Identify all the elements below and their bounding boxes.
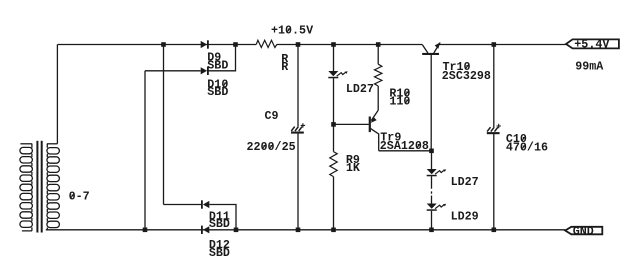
label D11 bbox=[209, 210, 230, 232]
node top rail x=493.8 (C10) bbox=[492, 42, 497, 47]
wire LD27/R9 branch upper bbox=[333, 45, 335, 72]
diode D10 SBD bbox=[201, 67, 209, 75]
wire D11 cathode horizontal bbox=[164, 204, 202, 206]
wire Tr9 base bbox=[334, 123, 369, 125]
svg-text:GND: GND bbox=[573, 224, 594, 238]
label 99mA bbox=[575, 59, 604, 73]
svg-text:+10.5V: +10.5V bbox=[271, 23, 313, 37]
LED LD27 (upper) bbox=[328, 71, 347, 78]
wire LD29 to GND rail bbox=[431, 211, 433, 230]
node top rail x=163.5 bbox=[161, 42, 166, 47]
resistor R9 bbox=[330, 152, 337, 177]
label R9 1K bbox=[346, 153, 361, 175]
node Tr10 base / Tr9 collector junction bbox=[429, 149, 434, 154]
wire D10 anode from bottom winding bbox=[145, 70, 201, 72]
resistor R bbox=[256, 40, 277, 47]
svg-text:1K: 1K bbox=[346, 161, 361, 175]
svg-text:SBD: SBD bbox=[207, 58, 228, 72]
label D12 bbox=[209, 238, 230, 260]
transformer T1 (secondary 0-7) bbox=[20, 141, 60, 233]
svg-text:LD29: LD29 bbox=[451, 210, 479, 224]
diode D12 SBD bbox=[201, 226, 209, 234]
wire Tr9 collector to Tr10 base bbox=[379, 150, 432, 152]
node GND rail x=145 bbox=[143, 228, 148, 233]
node base junction bbox=[331, 122, 336, 127]
capacitor C10 (electrolytic) bbox=[487, 124, 501, 134]
label Tr10 2SC3298 bbox=[442, 60, 491, 83]
svg-text:C9: C9 bbox=[265, 109, 279, 123]
label D10 bbox=[207, 77, 228, 99]
label LD27 (upper) bbox=[346, 82, 374, 96]
terminal flag GND bbox=[565, 224, 602, 238]
wire bottom rail (GND) bbox=[46, 229, 566, 231]
label C9 bbox=[265, 109, 279, 123]
resistor R10 bbox=[375, 64, 382, 86]
node top rail x=333.5 (LD27) bbox=[331, 42, 336, 47]
label D9 bbox=[207, 51, 228, 73]
transformer secondary label 0-7 bbox=[69, 190, 90, 204]
wire vertical winding-bottom to D10 (x=145) bbox=[144, 71, 146, 230]
svg-text:470/16: 470/16 bbox=[506, 140, 548, 154]
svg-text:SBD: SBD bbox=[207, 85, 228, 99]
svg-text:2SC3298: 2SC3298 bbox=[442, 69, 491, 83]
wire D11 anode down to GND rail bbox=[209, 205, 236, 230]
node top rail x=298 (C9) bbox=[296, 42, 301, 47]
wire transformer top lead up bbox=[56, 45, 58, 144]
label C10 bbox=[506, 132, 527, 146]
label 470/16 bbox=[506, 140, 548, 154]
svg-text:LD27: LD27 bbox=[451, 175, 479, 189]
svg-text:LD27: LD27 bbox=[346, 82, 374, 96]
svg-text:SBD: SBD bbox=[209, 217, 230, 231]
svg-text:R: R bbox=[281, 60, 288, 74]
diode D9 SBD bbox=[201, 40, 209, 48]
wire C9 branch (x=298) bbox=[297, 45, 299, 230]
node GND rail x=431.5 (LD29) bbox=[429, 228, 434, 233]
node GND rail x=236 (D11) bbox=[234, 228, 239, 233]
wire top rail (+V) from transformer to Tr10 bbox=[57, 44, 422, 46]
node GND rail x=333.5 (R9) bbox=[331, 228, 336, 233]
label LD27 (lower) bbox=[451, 175, 479, 189]
wire R9 to GND rail bbox=[333, 177, 335, 230]
node GND rail x=493.8 (C10) bbox=[492, 228, 497, 233]
svg-text:SBD: SBD bbox=[209, 246, 230, 260]
transistor Tr9 (PNP) bbox=[369, 110, 379, 151]
label R R bbox=[281, 52, 288, 74]
wire top rail from Tr10 emitter to +5.4V flag bbox=[439, 44, 566, 46]
node GND rail x=298 (C9) bbox=[296, 228, 301, 233]
label R10 110 bbox=[389, 86, 410, 108]
node top rail x=235.5 (D9/D10 cathodes) bbox=[233, 42, 238, 47]
wire LD27 to R9 bbox=[333, 78, 335, 151]
wire LD27-LD29 with break bbox=[431, 176, 433, 203]
wire D10 cathode riser to top rail bbox=[208, 45, 235, 71]
svg-text:+5.4V: +5.4V bbox=[574, 37, 609, 51]
node top rail x=378.2 (R10) bbox=[376, 42, 381, 47]
wire vertical top-rail to D11 (x=163.5) bbox=[163, 45, 165, 205]
wire C10 branch (x=493.8) bbox=[493, 45, 495, 230]
label LD29 bbox=[451, 210, 479, 224]
terminal flag +5.4V bbox=[566, 37, 619, 51]
wire rail to R10 bbox=[377, 45, 379, 65]
wire R10 to Tr9 emitter bbox=[377, 86, 379, 110]
capacitor C9 (electrolytic) bbox=[291, 123, 305, 133]
svg-text:99mA: 99mA bbox=[575, 59, 604, 73]
wire junction to LD27 (lower) bbox=[431, 151, 433, 169]
LED LD29 bbox=[427, 204, 446, 211]
transistor Tr10 (NPN) bbox=[422, 42, 440, 151]
LED LD27 (lower) bbox=[427, 169, 446, 176]
label Tr9 2SA1208 bbox=[380, 130, 429, 153]
diode D11 SBD bbox=[201, 200, 209, 208]
label 2200/25 bbox=[247, 140, 296, 154]
label +10.5V bbox=[271, 23, 313, 37]
